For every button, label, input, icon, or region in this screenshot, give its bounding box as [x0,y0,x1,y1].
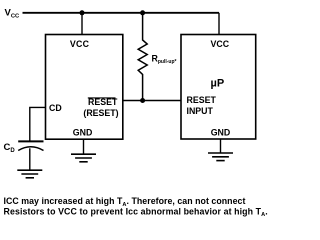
svg-text:VCC: VCC [70,39,90,49]
svg-text:µP: µP [211,78,225,90]
pin label VCC (U1) [70,39,90,49]
ground (capacitor) [17,170,42,178]
IC U1 reset supervisor box [46,35,123,140]
resistor Rpull-up [138,13,147,101]
wire (rail to U2 VCC pin) [218,13,220,35]
ground (U2 GND) [208,153,233,161]
junction dot (resistor to RESET net) [140,98,145,103]
svg-text:Resistors to VCC to prevent Ic: Resistors to VCC to prevent Icc abnormal… [4,207,268,219]
pin label RESET with overbar (U1) [88,97,118,107]
pin label VCC (U2) [211,39,230,49]
wire (rail to U1 VCC pin) [81,13,83,35]
wire U1 GND pin [83,139,85,154]
svg-text:(RESET): (RESET) [83,108,118,118]
net VCC label [5,8,21,20]
pin label GND (U1) [73,127,93,137]
junction dot (rail to resistor) [140,10,145,15]
svg-text:RESET: RESET [187,95,217,105]
label uP (U2) [211,78,225,90]
pin label CD (U1) [49,103,62,113]
label CD [4,142,16,154]
wire RESET net (U1 RESET to U2 RESET INPUT) [123,100,181,102]
label Rpull-up* [152,54,177,66]
note text line 1 [4,196,246,208]
svg-text:GND: GND [73,127,93,137]
wire VCC rail [23,12,220,14]
pin label GND (U2) [211,127,231,137]
ground (U1 GND) [71,154,96,162]
svg-text:CD: CD [49,103,62,113]
wire U2 GND pin [220,139,222,153]
svg-text:VCC: VCC [211,39,230,49]
pin label INPUT (U2) [187,106,214,116]
capacitor CD [18,141,43,170]
note text line 2 [4,207,268,219]
pin label (RESET) (U1) [83,108,118,118]
svg-text:RESET: RESET [88,97,118,107]
svg-text:GND: GND [211,127,231,137]
wire CD pin to capacitor [30,107,46,140]
pin label RESET (U2) [187,95,217,105]
microprocessor U2 box [181,35,256,140]
svg-text:INPUT: INPUT [187,106,214,116]
junction dot (rail to U1 VCC) [80,10,85,15]
